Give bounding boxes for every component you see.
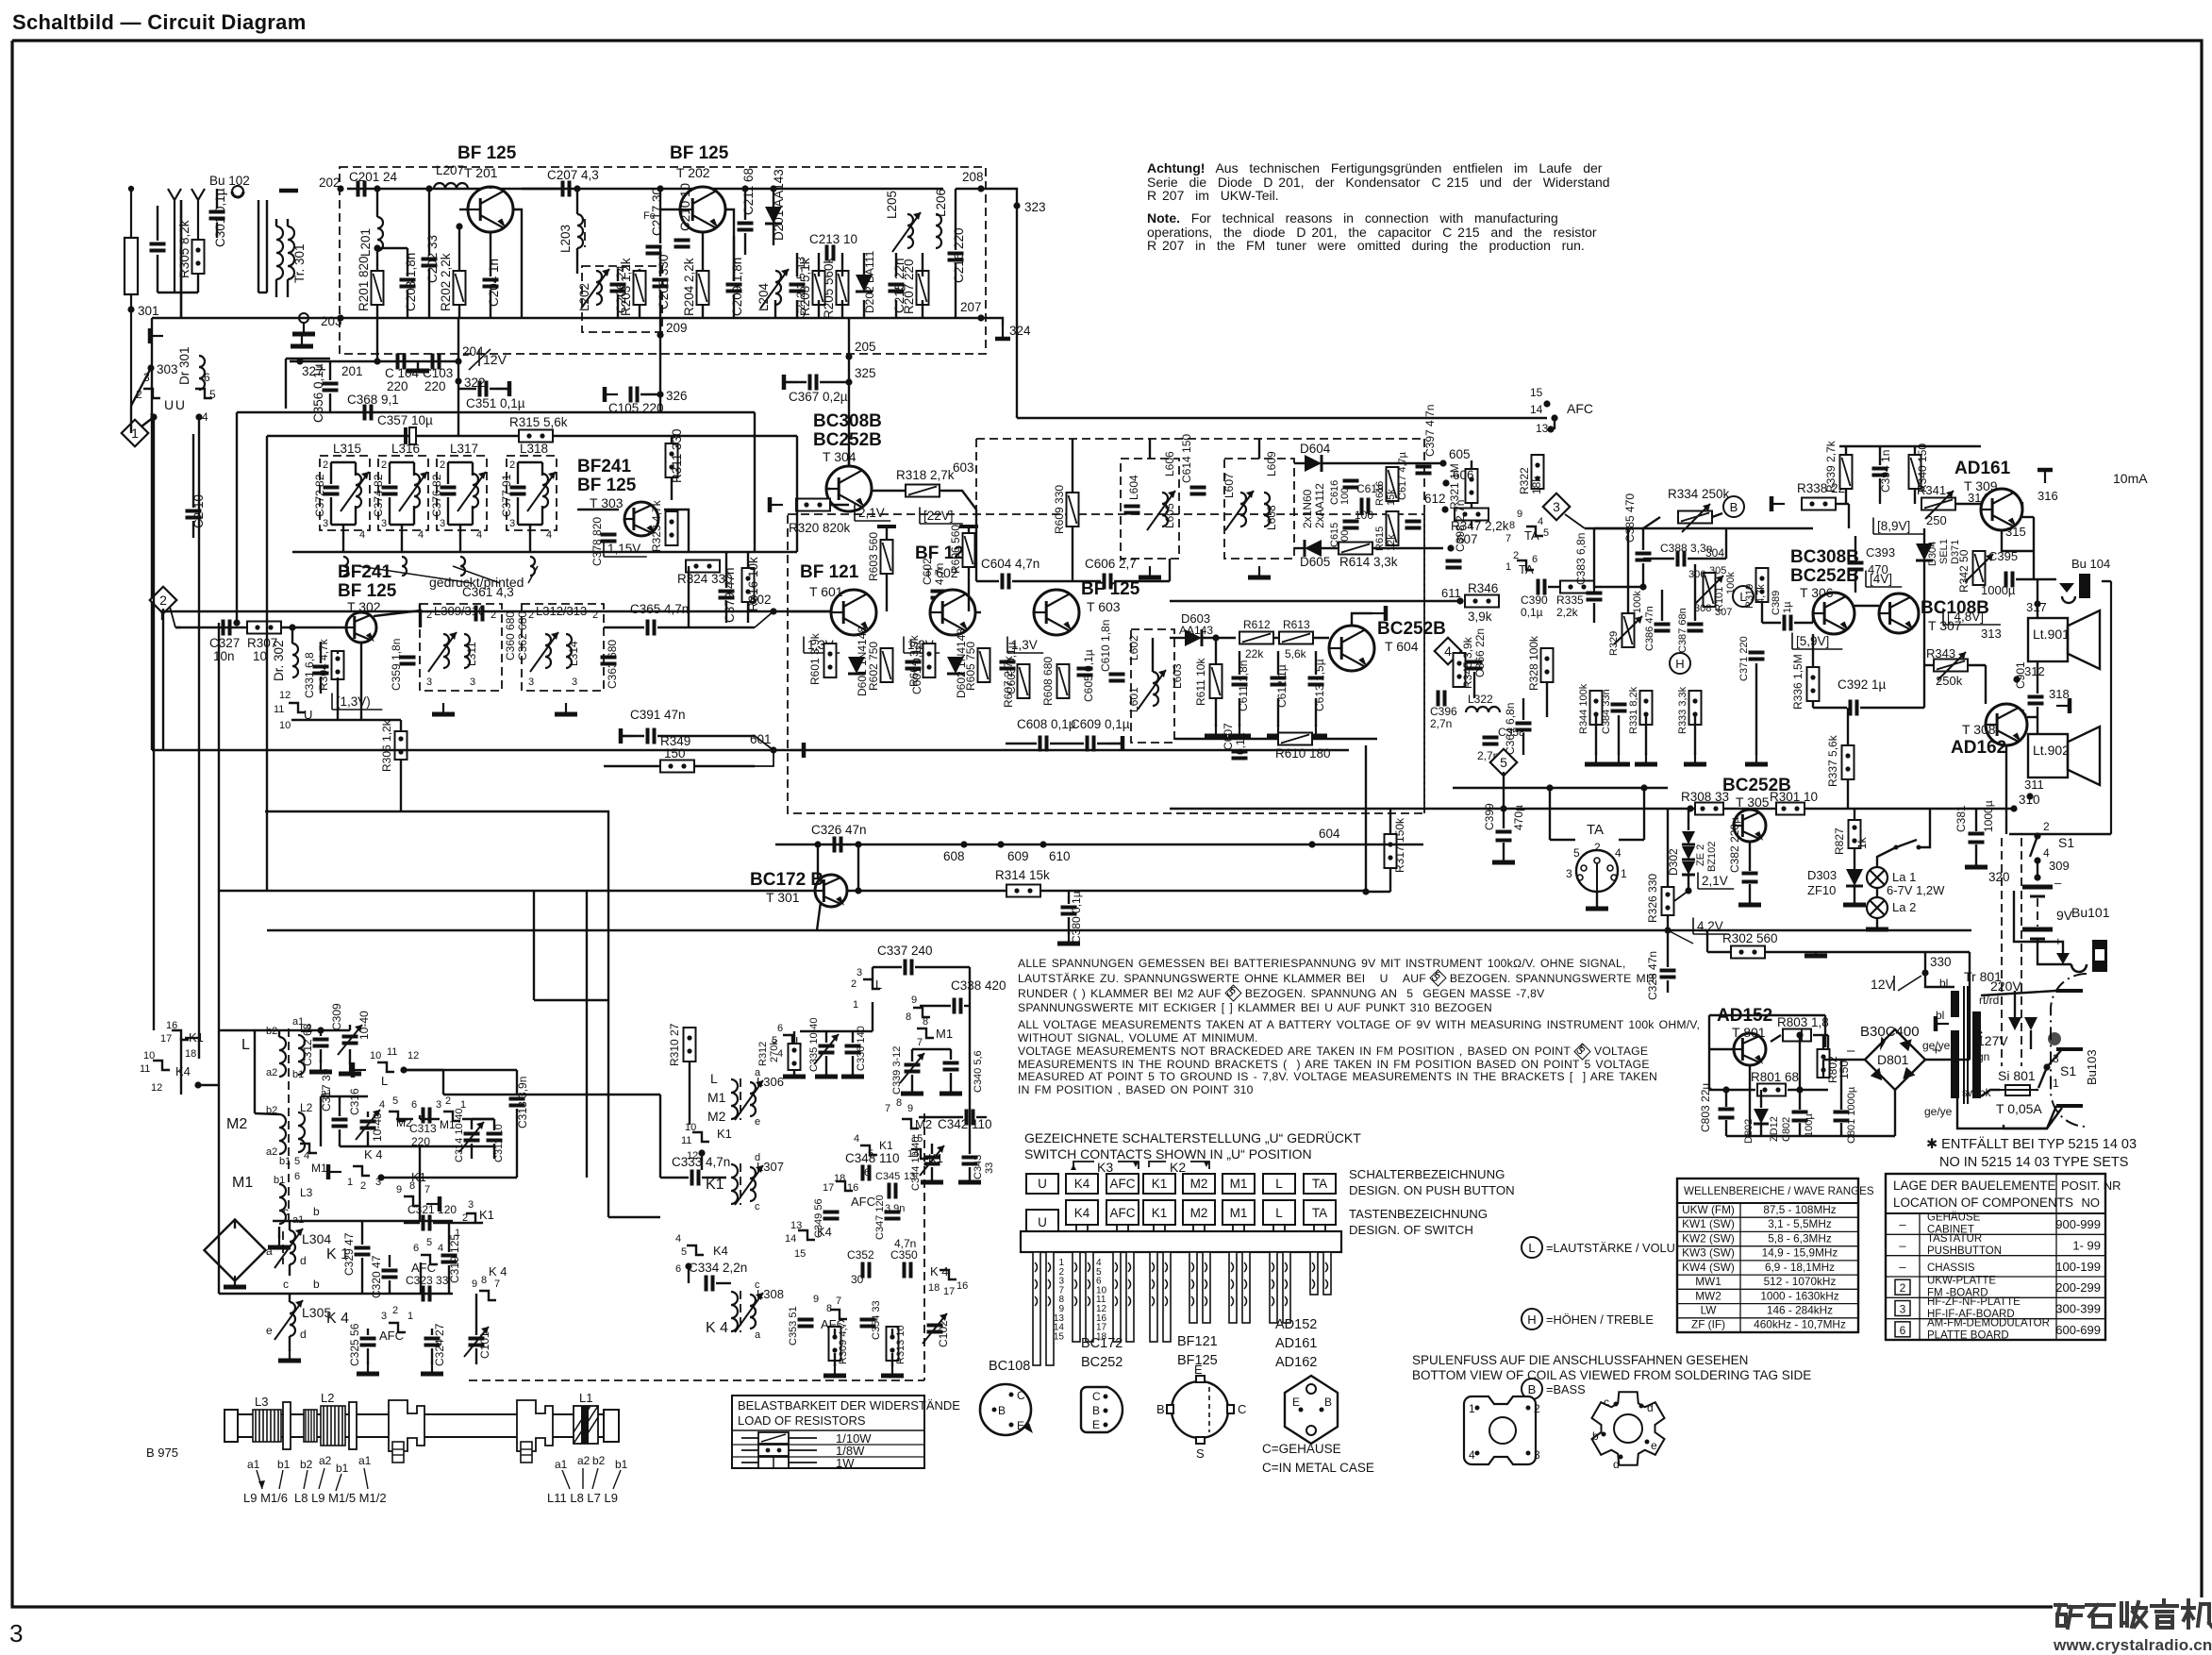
resistor R615 12k: [1387, 511, 1399, 545]
svg-text:La 2: La 2: [1892, 900, 1916, 914]
wire stub b: [419, 604, 421, 627]
svg-text:220V: 220V: [1990, 978, 2021, 994]
terminal bl tap: [1936, 1016, 1949, 1031]
voltage 2,1V T304: [855, 505, 890, 522]
svg-text:T 303: T 303: [590, 495, 624, 510]
wire: [367, 1112, 369, 1117]
svg-text:H: H: [1675, 657, 1684, 671]
wire: [320, 677, 322, 694]
wire: [1848, 504, 1850, 528]
node 310: [2010, 805, 2017, 811]
wire long 602 rail: [160, 610, 773, 612]
terminal circle: [299, 313, 308, 323]
slat contact M1: [1231, 1296, 1234, 1306]
capacitor C351 0,1u: [480, 381, 487, 397]
svg-text:R323 4,7k: R323 4,7k: [650, 499, 663, 552]
wire bus vert d: [607, 1000, 609, 1217]
svg-text:605: 605: [1449, 447, 1471, 461]
wire: [725, 552, 727, 588]
svg-text:250: 250: [1926, 513, 1947, 527]
svg-text:1: 1: [131, 426, 139, 441]
wire component bottom: [841, 300, 843, 318]
rod bracket a: [283, 1402, 291, 1449]
svg-text:CHASSIS: CHASSIS: [1927, 1262, 1975, 1274]
capacitor C317 39: [332, 1120, 348, 1127]
svg-text:4: 4: [1469, 1448, 1475, 1462]
capacitor C217 30: [646, 247, 662, 254]
svg-text:D303: D303: [1807, 868, 1837, 882]
wire C318 top: [516, 1070, 518, 1095]
wire FM top rail: [347, 188, 943, 190]
node 5: [1490, 749, 1518, 777]
wire: [640, 393, 660, 395]
ground L605: [1139, 566, 1161, 577]
resistor R319 4,7k: [1756, 568, 1769, 602]
wire: [891, 1329, 893, 1335]
wire from diamond3: [1565, 514, 1585, 528]
svg-text:c: c: [1604, 1396, 1609, 1409]
svg-text:C324 27: C324 27: [433, 1323, 446, 1366]
wire: [490, 290, 491, 318]
potentiometer R329 100k arrow: [1614, 616, 1642, 644]
wire T303 base: [577, 509, 619, 510]
wire Tr301 left leg2: [266, 200, 268, 293]
slat contact K4: [1088, 1279, 1090, 1289]
svg-text:ge/ye: ge/ye: [1924, 1105, 1953, 1118]
svg-text:9: 9: [1517, 509, 1522, 520]
svg-text:C313: C313: [409, 1122, 437, 1135]
svg-text:7: 7: [424, 1184, 430, 1195]
svg-text:17: 17: [823, 1182, 834, 1194]
terminal stub: [150, 328, 163, 343]
svg-text:C327: C327: [209, 636, 240, 650]
capacitor C213 10: [827, 245, 834, 261]
wire: [660, 1177, 689, 1179]
svg-text:C379 47n: C379 47n: [723, 567, 737, 623]
resistor R301 10: [1776, 803, 1805, 815]
terminal K4: [328, 1164, 341, 1179]
wire: [266, 890, 268, 892]
location of components table: [1886, 1174, 2121, 1341]
junction: [374, 244, 380, 251]
svg-text:C351 0,1µ: C351 0,1µ: [466, 396, 525, 410]
svg-text:601: 601: [750, 732, 772, 746]
voltage 5,9V: [1792, 633, 1842, 650]
wire left v7: [285, 359, 287, 409]
svg-text:4: 4: [476, 529, 482, 541]
svg-text:2xAA112: 2xAA112: [1313, 483, 1326, 528]
node 208: [977, 185, 984, 192]
resistor R313 10: [887, 1327, 899, 1361]
wire: [320, 1030, 322, 1036]
wire: [404, 1069, 443, 1071]
switch contact K1 right: [466, 1213, 483, 1223]
svg-text:146 - 284kHz: 146 - 284kHz: [1767, 1304, 1833, 1317]
svg-text:1: 1: [853, 999, 858, 1011]
svg-text:204: 204: [462, 344, 484, 359]
svg-text:L304: L304: [302, 1231, 331, 1246]
terminal: [621, 728, 634, 744]
wire: [475, 1348, 477, 1364]
svg-text:201: 201: [341, 364, 363, 378]
wire: [733, 294, 735, 318]
trimmer C339 3-12 arrow: [900, 1053, 924, 1083]
wire antenna to diamond1 v: [130, 406, 132, 433]
wire component bottom: [818, 300, 820, 318]
wire T308 emitter down: [2005, 745, 2007, 834]
capacitor C372 82: [324, 488, 340, 494]
wire: [1050, 743, 1084, 744]
junction: [855, 887, 861, 894]
capacitor C385 470: [1636, 554, 1652, 560]
svg-text:L609: L609: [1265, 451, 1278, 476]
wire: [1522, 733, 1524, 755]
svg-text:2: 2: [2043, 820, 2050, 833]
ground L3: [268, 1236, 291, 1247]
transistor T308 AD162: [1986, 704, 2027, 745]
svg-text:602: 602: [750, 593, 772, 607]
wire: [330, 497, 332, 525]
svg-text:K4: K4: [817, 1225, 832, 1239]
svg-text:MW2: MW2: [1695, 1289, 1721, 1302]
wire comp top: [1277, 651, 1279, 675]
resistor R302 560: [1731, 946, 1765, 959]
plug pin mid: [2056, 1047, 2083, 1051]
capacitor C395 1000u: [2006, 572, 2013, 588]
svg-text:BF241: BF241: [577, 457, 631, 476]
svg-text:T 801: T 801: [1732, 1025, 1766, 1040]
ground C309: [339, 1062, 361, 1074]
core L307: [740, 1163, 741, 1205]
svg-text:GEHÄUSE: GEHÄUSE: [1927, 1212, 1981, 1224]
rod clamp mid: [389, 1400, 424, 1463]
svg-text:AFC: AFC: [411, 1261, 436, 1275]
trimmer L309: [443, 634, 449, 668]
capacitor C376 82: [441, 488, 457, 494]
ground: [1267, 725, 1289, 736]
wire: [320, 1049, 322, 1062]
wire: [1694, 564, 1696, 621]
svg-text:5: 5: [868, 1148, 873, 1160]
svg-text:GEZEICHNETE SCHALTERSTELLUNG: GEZEICHNETE SCHALTERSTELLUNG „U“ GEDRÜCK…: [1024, 1129, 1361, 1145]
svg-text:TA: TA: [1587, 822, 1604, 838]
svg-text:AFC: AFC: [1567, 401, 1593, 416]
node D302 bottom: [1685, 887, 1691, 894]
node K4-6: [685, 1262, 691, 1269]
pinout BC108: [980, 1384, 1033, 1435]
svg-text:L207: L207: [436, 163, 464, 177]
slat contact K4: [1074, 1279, 1077, 1289]
junction C326 left: [814, 841, 821, 847]
wire: [702, 1177, 726, 1179]
transformer Tr301 primary: [276, 226, 283, 279]
resistor R604 3,9k: [923, 644, 936, 677]
wire comp bottom: [1215, 698, 1217, 727]
wire: [1322, 547, 1443, 549]
ground L305: [278, 1349, 301, 1361]
svg-text:c: c: [755, 1201, 760, 1212]
pushbutton label K1 row1: [1143, 1174, 1175, 1194]
svg-text:–: –: [1899, 1217, 1906, 1231]
svg-text:R328 100k: R328 100k: [1527, 635, 1540, 691]
svg-text:R342 50: R342 50: [1957, 549, 1971, 593]
wire M1 row: [912, 1048, 951, 1050]
wire fuse to S1: [2036, 1089, 2038, 1091]
legend resistor 1/8W: [741, 1445, 817, 1456]
svg-text:R337 5,6k: R337 5,6k: [1826, 734, 1839, 787]
diode D802 ZD12: [1754, 1109, 1769, 1124]
wire emitter rail: [291, 719, 401, 721]
transistor T601 BF121: [831, 590, 876, 635]
coil below filter: [343, 557, 348, 576]
transistor T603 BF125: [1034, 590, 1079, 635]
svg-text:C: C: [1092, 1390, 1101, 1403]
wire: [431, 1329, 433, 1335]
svg-text:2: 2: [851, 978, 857, 990]
svg-text:C368 9,1: C368 9,1: [347, 393, 399, 407]
speaker Lt.901: [2028, 610, 2100, 669]
wire: [493, 1144, 495, 1159]
svg-text:L2: L2: [321, 1391, 334, 1405]
wire: [623, 735, 644, 737]
resistor R203 1,2k: [634, 271, 646, 305]
transistor T304 BC308B/BC252B: [826, 466, 872, 511]
slat contact U: [1035, 1279, 1038, 1289]
svg-text:R333 3,3k: R333 3,3k: [1677, 686, 1688, 734]
wire C313 to M1: [420, 1118, 440, 1120]
svg-text:100-199: 100-199: [2055, 1260, 2101, 1274]
svg-text:1000µ: 1000µ: [1982, 800, 1995, 832]
capacitor C347 120: [885, 1212, 901, 1219]
wire: [541, 506, 543, 525]
capacitor C616 100: [1343, 481, 1359, 488]
wire T302 emitter: [360, 643, 362, 720]
wire T201 top: [490, 187, 491, 189]
resistor R339 2,7k: [1840, 455, 1853, 489]
svg-text:8: 8: [906, 1011, 911, 1023]
capacitor C345 3,9n: [890, 1183, 896, 1199]
wire: [431, 1348, 433, 1364]
resistor R312 270k: [789, 1044, 801, 1070]
svg-text:3: 3: [1900, 1303, 1906, 1316]
svg-text:3: 3: [1553, 499, 1560, 514]
svg-text:207: 207: [960, 300, 982, 314]
wire: [1170, 637, 1174, 639]
svg-text:Lt.901: Lt.901: [2033, 627, 2070, 642]
wire: [447, 497, 449, 525]
svg-text:c: c: [755, 1279, 760, 1291]
wire C321 left: [404, 1222, 420, 1224]
svg-text:R603 560: R603 560: [867, 532, 880, 581]
svg-text:=LAUTSTÄRKE / VOLUME: =LAUTSTÄRKE / VOLUME: [1546, 1241, 1693, 1255]
ground C325: [357, 1362, 379, 1374]
svg-text:K 4: K 4: [489, 1264, 507, 1279]
trimmer C101 arrow: [464, 1327, 489, 1357]
slat contact TA: [1325, 1262, 1328, 1272]
svg-text:1: 1: [1469, 1402, 1475, 1415]
wire R317 bottom: [1389, 868, 1391, 892]
svg-text:R203 1,2k: R203 1,2k: [619, 258, 633, 316]
wire M1 to C314 C311: [462, 1118, 494, 1120]
wire C321 right: [433, 1222, 475, 1224]
wire left v5: [162, 609, 164, 750]
capacitor C313 220: [424, 1108, 430, 1124]
pointer: [562, 1470, 570, 1489]
svg-text:C209 1,8n: C209 1,8n: [730, 258, 744, 316]
svg-text:b1: b1: [279, 1156, 291, 1167]
svg-text:C: C: [1238, 1402, 1246, 1416]
svg-text:C102: C102: [937, 1320, 950, 1347]
svg-text:b: b: [313, 1205, 320, 1218]
wire: [1985, 665, 1987, 704]
node 609: [997, 841, 1004, 847]
resistor R322 18k: [1532, 455, 1544, 489]
svg-text:C609 0,1µ: C609 0,1µ: [1071, 717, 1130, 731]
ground C335: [815, 1074, 838, 1077]
svg-text:C362 680: C362 680: [516, 611, 529, 660]
svg-text:DESIGN. ON PUSH BUTTON: DESIGN. ON PUSH BUTTON: [1349, 1183, 1515, 1197]
svg-text:L605: L605: [1163, 503, 1176, 528]
wire top link: [1594, 527, 1628, 529]
svg-text:306: 306: [1688, 569, 1705, 580]
trimmer coil L318 arrow: [527, 472, 556, 511]
svg-text:606: 606: [1453, 468, 1474, 482]
trimmer C339 3-12: [905, 1065, 921, 1072]
svg-text:5: 5: [681, 1246, 687, 1258]
resistor R336 1,5M: [1807, 667, 1820, 701]
wire: [541, 462, 543, 476]
wire long 601 rail: [152, 749, 773, 751]
svg-text:BF241: BF241: [338, 562, 391, 582]
resistor R607 2,7k: [1018, 664, 1030, 698]
wire bus a: [443, 1094, 660, 1095]
slat contact K1: [1152, 1262, 1155, 1272]
svg-text:15: 15: [1530, 386, 1543, 399]
svg-text:300-399: 300-399: [2055, 1302, 2101, 1316]
ground chain: [1745, 753, 1768, 764]
capacitor C617 4,7u: [1405, 522, 1422, 528]
wire: [1955, 503, 1981, 505]
svg-text:9: 9: [396, 1184, 402, 1195]
transistor T307 BC108B: [1879, 593, 1919, 633]
wire: [1114, 580, 1170, 582]
pointer: [364, 1468, 368, 1489]
svg-text:D801: D801: [1877, 1052, 1909, 1067]
slat contact M1: [1244, 1296, 1247, 1306]
svg-text:K4: K4: [1074, 1206, 1090, 1220]
capacitor C396 2,7n: [1439, 691, 1445, 707]
wire: [1761, 602, 1763, 623]
wire: [689, 1062, 690, 1125]
svg-text:609: 609: [1007, 849, 1029, 863]
legend divider: [732, 1429, 924, 1431]
svg-text:KW3 (SW): KW3 (SW): [1682, 1246, 1735, 1260]
wire T302 collector to filter: [374, 610, 421, 627]
ground TA: [1586, 906, 1608, 909]
svg-text:AFC: AFC: [379, 1329, 404, 1343]
diode D605: [1305, 540, 1322, 557]
capacitor C361 4,3: [476, 606, 483, 622]
demod box left extension: [975, 439, 977, 514]
wire prong b: [2030, 1030, 2032, 1049]
transistor T604 BC252B: [1329, 626, 1374, 671]
svg-text:B: B: [1730, 500, 1738, 514]
slat contact L: [1285, 1262, 1288, 1272]
trimmer L202 arrow: [581, 269, 609, 309]
svg-text:2: 2: [381, 460, 387, 471]
wire 330 from rail: [1924, 952, 1926, 973]
svg-text:R326 330: R326 330: [1646, 874, 1659, 923]
resistor R827 1k: [1849, 820, 1861, 848]
svg-text:C363 680: C363 680: [606, 640, 619, 689]
node 202: [337, 185, 343, 192]
wire: [321, 1095, 368, 1097]
wire T306-T307: [1854, 605, 1879, 607]
svg-text:K1: K1: [879, 1139, 893, 1152]
potentiometer R101 100k: [1704, 573, 1716, 607]
wire: [2037, 707, 2038, 734]
svg-text:4: 4: [379, 1099, 385, 1111]
wire T201 emitter: [513, 209, 522, 318]
svg-text:H: H: [1527, 1312, 1536, 1327]
wire rail L305: [273, 1293, 453, 1295]
bandfilter box L309/310: [420, 604, 502, 691]
wire: [447, 462, 449, 484]
page number: [9, 1619, 23, 1648]
svg-text:10n: 10n: [213, 649, 235, 663]
svg-text:316: 316: [2037, 489, 2058, 503]
svg-text:3: 3: [528, 677, 534, 688]
wire filter to bus: [459, 525, 461, 552]
slat contact M2: [1205, 1296, 1207, 1306]
wire: [911, 1075, 913, 1093]
wire La1-La2: [1876, 888, 1878, 897]
connector Bu104: [2059, 574, 2090, 603]
pushbutton label U row1: [1026, 1174, 1058, 1194]
trimmer L603: [1153, 672, 1158, 706]
wire: [1312, 738, 1377, 740]
svg-text:L314: L314: [567, 641, 580, 666]
S1 mechanical dashed link: [2021, 838, 2022, 1066]
node 612: [1441, 506, 1448, 512]
slat contact K1: [1152, 1279, 1155, 1289]
wire: [2033, 517, 2035, 579]
wire 42v pointer: [1668, 930, 1693, 944]
wire K1 stub link: [185, 1037, 199, 1039]
svg-text:2,1V: 2,1V: [858, 506, 885, 520]
trimmer L312: [545, 634, 551, 668]
wire: [2016, 578, 2056, 580]
wire: [617, 269, 619, 281]
svg-text:–: –: [2054, 876, 2062, 890]
junction: [657, 185, 663, 192]
svg-text:4,7n: 4,7n: [894, 1237, 916, 1250]
wire TA left v: [1549, 788, 1551, 840]
svg-text:4,7k: 4,7k: [1755, 584, 1767, 604]
transistor T201 BF125: [468, 187, 513, 232]
svg-text:C334 2,2n: C334 2,2n: [689, 1261, 747, 1275]
wire: [355, 506, 357, 525]
ground L608: [1248, 566, 1271, 577]
trimmer L312 arrow: [530, 632, 558, 672]
switch label TA row2: [1304, 1200, 1336, 1225]
wire: [1799, 1123, 1801, 1136]
node 1: [150, 413, 157, 420]
svg-text:T 305: T 305: [1736, 794, 1770, 810]
potentiometer R334 250k arrow: [1682, 504, 1710, 532]
core L308: [740, 1291, 741, 1332]
svg-text:3: 3: [1566, 867, 1572, 880]
